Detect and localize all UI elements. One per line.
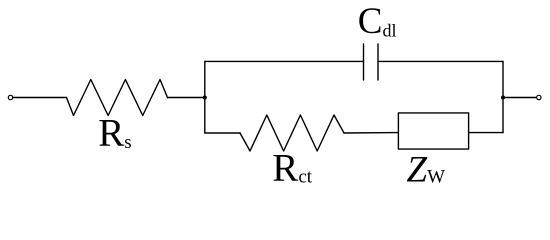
svg-text:Rs: Rs [98,112,131,155]
impedance element Zw box [398,113,468,149]
wire [13,97,67,99]
wire bottom rail [205,132,240,134]
resistor Rct [240,115,344,151]
wire [469,132,503,134]
wire [168,97,205,99]
resistor Rs [67,80,168,116]
wire right vertical [502,61,504,132]
terminal right [537,95,541,99]
wire top rail left [205,60,364,62]
wire left vertical [204,61,206,133]
terminal left [8,95,12,99]
wire top rail right [378,60,503,62]
wire [503,97,537,99]
wire [344,132,398,134]
capacitor Cdl [364,44,379,80]
svg-text:ZW: ZW [407,149,446,190]
node junction left [203,96,207,100]
node junction right [501,96,505,100]
svg-text:Cdl: Cdl [358,1,397,42]
svg-text:Rct: Rct [272,147,312,190]
